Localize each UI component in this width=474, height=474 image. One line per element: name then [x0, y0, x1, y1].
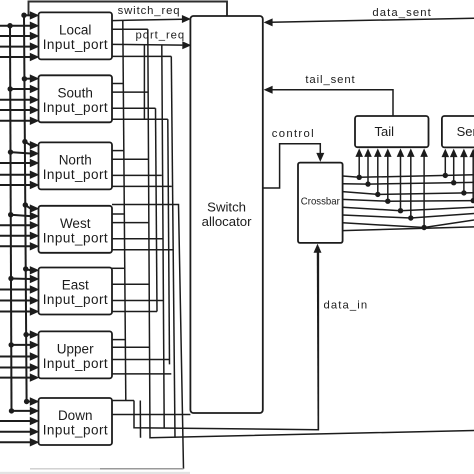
input arrows East	[0, 266, 39, 316]
svg-text:Input_port: Input_port	[43, 231, 108, 246]
wire stub Upper s2	[112, 346, 150, 348]
svg-text:switch_req: switch_req	[118, 5, 180, 17]
svg-text:West: West	[60, 216, 91, 231]
wire tap to Tail 3	[374, 148, 382, 197]
wire crossbar out 7	[343, 220, 474, 228]
wire stub South s1	[112, 83, 123, 85]
svg-text:Tail: Tail	[375, 124, 395, 139]
wire data feed L1	[134, 247, 318, 430]
block South Input_port	[39, 75, 113, 122]
svg-text:data_sent: data_sent	[372, 7, 431, 19]
wire stub Upper s1	[112, 339, 126, 341]
svg-text:Crossbar: Crossbar	[301, 195, 340, 207]
wire tail_sent	[264, 86, 393, 116]
wire crossbar out 4	[343, 199, 474, 201]
block Send	[442, 116, 474, 147]
wire grant feedback top	[29, 2, 228, 17]
wire V8 vertical	[112, 205, 184, 469]
wire data_sent	[264, 18, 474, 26]
wire stub West s2	[112, 222, 149, 224]
block U1 Switch allocator	[190, 16, 262, 413]
block Local Input_port	[39, 12, 113, 59]
input arrows North	[0, 141, 39, 189]
svg-text:East: East	[62, 278, 89, 293]
svg-text:Input_port: Input_port	[43, 37, 108, 52]
wire tap to Send 4	[469, 149, 474, 204]
wire tap to Tail 6	[407, 148, 415, 220]
svg-text:port_req: port_req	[136, 30, 185, 42]
wire tap to Tail 4	[384, 148, 392, 204]
wire faded bottom line	[30, 468, 184, 470]
label port_req	[136, 30, 185, 42]
block U2 Crossbar	[298, 163, 343, 243]
wire stub North s2	[112, 158, 149, 160]
wire stub North s4	[112, 185, 172, 187]
wire port_req	[112, 41, 191, 49]
wire V6 vertical	[168, 119, 170, 364]
wire stub Down s1	[112, 400, 134, 402]
wire stub East s1	[112, 267, 125, 269]
wire stub Upper s4	[112, 373, 171, 375]
svg-text:Input_port: Input_port	[43, 292, 108, 307]
block North Input_port	[39, 142, 113, 189]
wire faded bottom band	[0, 472, 190, 474]
wire stub Local s2	[112, 28, 148, 30]
wire tap to Send 2	[450, 149, 458, 186]
wire stub North s3	[112, 174, 162, 176]
input arrows West	[0, 204, 39, 250]
block Upper Input_port	[39, 331, 113, 378]
wire tap to Tail 5	[397, 148, 405, 213]
svg-text:Input_port: Input_port	[43, 356, 108, 371]
wire stub East s4	[112, 311, 157, 313]
label control	[272, 128, 314, 140]
wire crossbar out 1	[343, 175, 474, 178]
wire tap to Tail 2	[364, 148, 372, 186]
svg-text:South: South	[58, 85, 93, 100]
wire V2 vertical and bottom line	[148, 29, 474, 438]
wire stub East s2	[112, 283, 149, 285]
wire stub South s3	[112, 107, 156, 109]
svg-text:Down: Down	[58, 408, 93, 423]
wire switch_req	[112, 15, 191, 23]
svg-text:data_in: data_in	[324, 300, 368, 312]
wire tap to Tail 7	[420, 148, 428, 230]
input arrows Down	[0, 397, 39, 446]
block East Input_port	[39, 268, 113, 315]
wire stub South s2	[112, 91, 148, 93]
wire crossbar out 2	[343, 182, 474, 184]
wire V1 vertical	[123, 21, 126, 401]
wire crossbar out 6	[343, 214, 474, 219]
wire V2b vertical	[143, 44, 145, 119]
input arrows Local	[0, 11, 39, 61]
svg-text:Input_port: Input_port	[43, 167, 108, 182]
wire crossbar out 5	[343, 207, 474, 211]
wire stub Local s4	[112, 55, 171, 57]
block Tail	[355, 116, 429, 147]
svg-text:Switch: Switch	[207, 200, 246, 215]
wire stub South s4	[112, 118, 168, 120]
wire stub North s1	[112, 150, 124, 152]
wire V9 vertical	[139, 401, 141, 438]
svg-text:Local: Local	[59, 22, 91, 37]
input arrows Upper	[0, 330, 39, 381]
svg-text:Upper: Upper	[57, 341, 94, 356]
wire tap to Send 3	[460, 149, 468, 196]
label data_sent	[372, 7, 431, 19]
wire V3 vertical	[162, 45, 164, 427]
svg-text:tail_sent: tail_sent	[305, 74, 355, 86]
wire data_in	[314, 244, 322, 430]
wire stub West s4	[112, 249, 173, 251]
wire stub West s1	[112, 213, 124, 215]
wire stub Upper s3	[112, 359, 170, 361]
bus A vertical with junction dots	[7, 23, 14, 414]
label data_in	[324, 300, 368, 312]
wire crossbar out 3	[343, 192, 474, 195]
bus B vertical with junction dots	[21, 13, 29, 405]
svg-text:Input_port: Input_port	[43, 423, 108, 438]
wire crossbar out 8	[343, 227, 474, 231]
wire control	[263, 144, 325, 188]
wire stub East s3	[112, 300, 163, 302]
label tail_sent	[305, 74, 355, 86]
wire tap to Send 1	[442, 149, 450, 178]
wire tap to Tail 1	[355, 148, 363, 180]
wire V5 vertical	[156, 108, 158, 311]
block West Input_port	[39, 206, 113, 253]
svg-text:Input_port: Input_port	[43, 100, 108, 115]
svg-text:Send: Send	[457, 124, 474, 139]
wire V4 vertical	[171, 56, 175, 437]
block Down Input_port	[39, 398, 113, 445]
label switch_req	[118, 5, 180, 17]
wire stub Down s2	[112, 414, 190, 416]
svg-text:North: North	[59, 152, 92, 167]
input arrows South	[0, 74, 39, 125]
wire stub West s3	[112, 238, 163, 240]
svg-text:allocator: allocator	[202, 214, 252, 229]
